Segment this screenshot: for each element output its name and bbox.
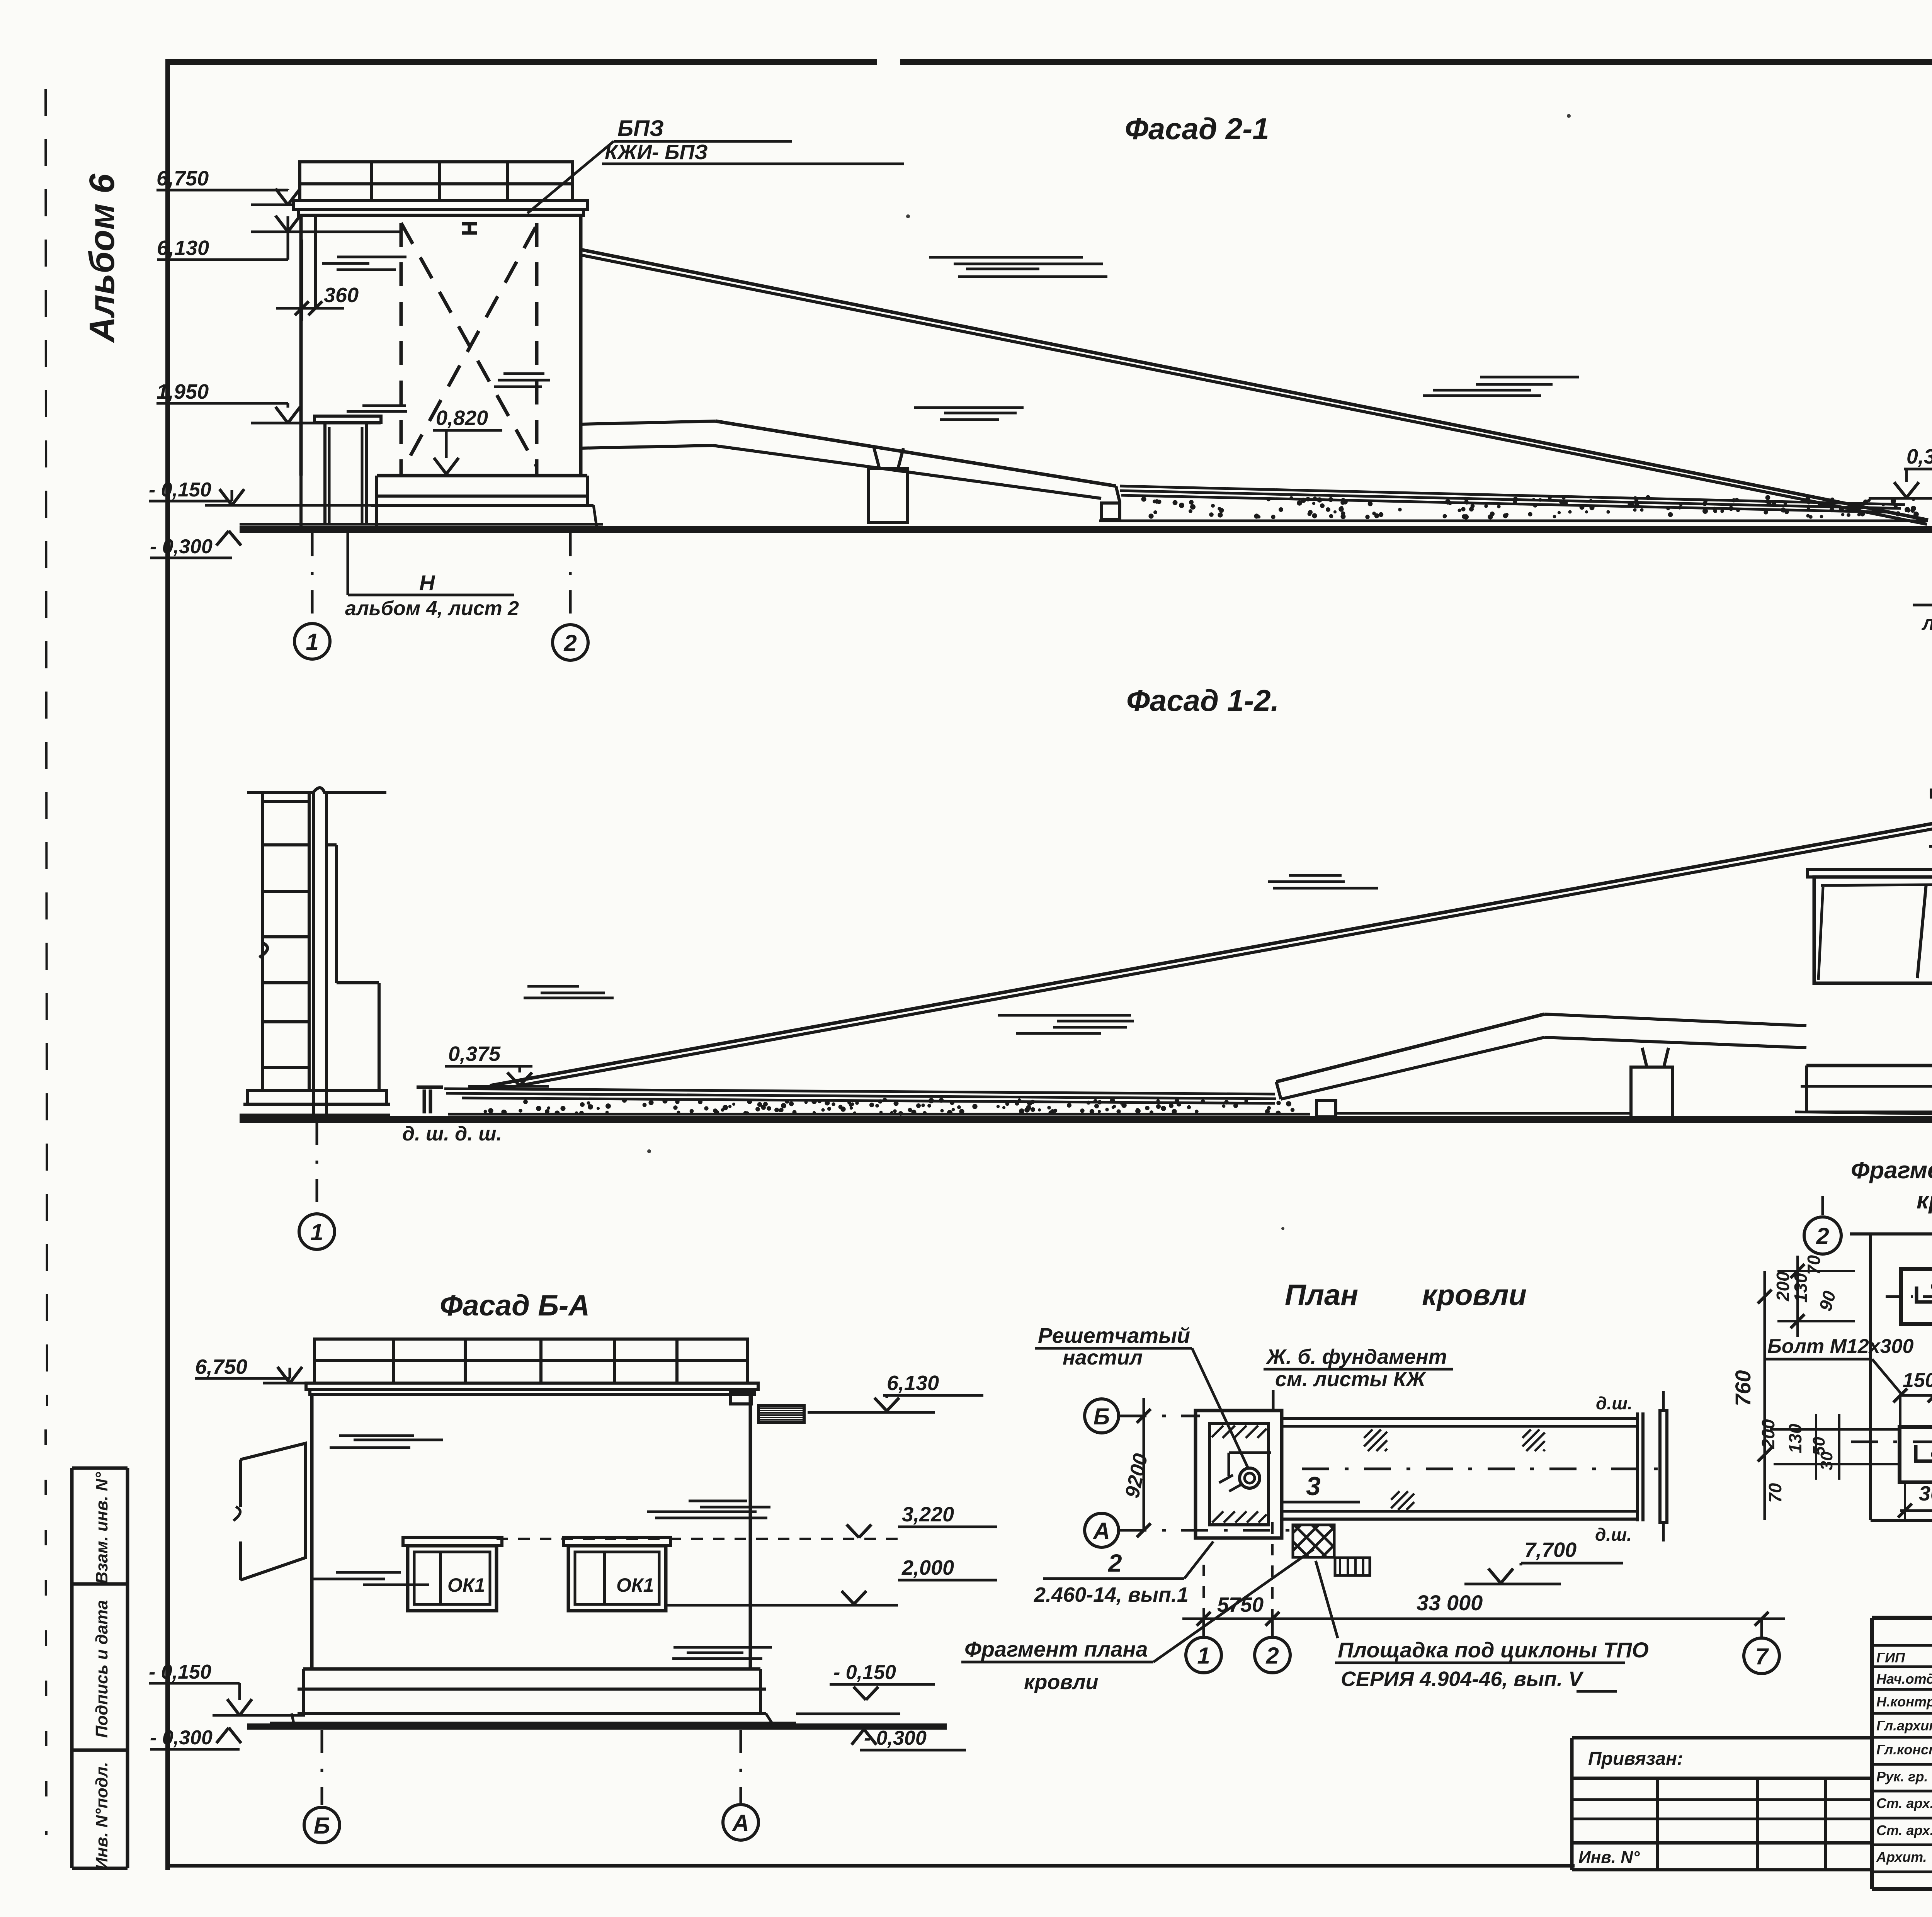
title block outer bbox=[1872, 1616, 1932, 1620]
svg-text:ГИП: ГИП bbox=[1876, 1650, 1905, 1665]
sidebar stamp boxes bbox=[70, 1468, 74, 1868]
svg-text:Н: Н bbox=[419, 571, 435, 595]
svg-text:План: План bbox=[1285, 1279, 1358, 1312]
svg-text:0,375: 0,375 bbox=[448, 1042, 501, 1066]
F21 axis circle 2 bbox=[553, 625, 588, 660]
fragment plan lower bolt plate bbox=[1900, 1427, 1932, 1482]
svg-text:150: 150 bbox=[1903, 1369, 1932, 1392]
svg-text:Альбом 6: Альбом 6 bbox=[82, 173, 122, 343]
F21 embankment band bbox=[1120, 486, 1905, 505]
svg-text:0,820: 0,820 bbox=[436, 406, 488, 430]
roof plan inner detail bbox=[1229, 1451, 1271, 1454]
svg-text:70: 70 bbox=[1765, 1483, 1785, 1503]
svg-text:200: 200 bbox=[1758, 1419, 1778, 1449]
F12 gallery roof slope bbox=[490, 822, 1932, 1086]
F12 walkway edge line bbox=[1337, 1112, 1631, 1115]
F21 retaining wall top / canopy slab bbox=[581, 421, 716, 424]
FBA axis line А bbox=[740, 1730, 742, 1803]
svg-text:Решетчатый: Решетчатый bbox=[1038, 1323, 1190, 1348]
svg-text:200: 200 bbox=[1773, 1271, 1793, 1302]
roof plan axis Б bbox=[1085, 1399, 1119, 1433]
FBA axis circle А bbox=[723, 1805, 759, 1840]
name table rows bbox=[1872, 1644, 1932, 1647]
svg-text:6,750: 6,750 bbox=[156, 167, 209, 190]
fragment plan upper bolt plate bbox=[1901, 1269, 1932, 1324]
svg-text:А: А bbox=[1092, 1518, 1110, 1544]
svg-text:ОК1: ОК1 bbox=[616, 1574, 654, 1596]
F21 axis circle 1 bbox=[294, 624, 330, 659]
F12 left base slab bbox=[247, 1091, 386, 1104]
F21 gallery roof slope bbox=[581, 250, 1928, 520]
svg-text:д. ш. д. ш.: д. ш. д. ш. bbox=[402, 1123, 502, 1145]
roof plan crosshatch pad bbox=[1293, 1525, 1334, 1557]
svg-text:7,700: 7,700 bbox=[1524, 1538, 1577, 1562]
F12 tower cornice bbox=[1931, 790, 1932, 797]
svg-text:- 0,150: - 0,150 bbox=[149, 479, 211, 501]
FBA wall bbox=[310, 1395, 314, 1669]
roof plan gallery strip bbox=[1282, 1417, 1638, 1420]
roof plan axis circle 2 bbox=[1255, 1637, 1290, 1673]
svg-text:3: 3 bbox=[1306, 1472, 1321, 1501]
F12 canopy tip support bbox=[1316, 1101, 1336, 1117]
svg-text:1: 1 bbox=[1197, 1643, 1210, 1669]
svg-text:Нач.отд.: Нач.отд. bbox=[1876, 1671, 1932, 1687]
svg-text:А: А bbox=[731, 1810, 749, 1836]
roof plan square hatch bbox=[1212, 1426, 1267, 1438]
F12 canopy slab bbox=[1276, 1014, 1544, 1082]
svg-text:300: 300 bbox=[1919, 1482, 1932, 1505]
svg-text:Рук. гр.: Рук. гр. bbox=[1876, 1769, 1928, 1784]
svg-text:Фасад 2-1: Фасад 2-1 bbox=[1125, 112, 1269, 146]
F21 tower parapet blocks bbox=[300, 162, 573, 201]
F21 facade streak marks bbox=[337, 256, 406, 258]
svg-text:6,750: 6,750 bbox=[195, 1355, 247, 1378]
svg-text:1: 1 bbox=[306, 629, 318, 655]
svg-text:кровли: кровли bbox=[1024, 1671, 1099, 1694]
svg-text:КЖИ- БПЗ: КЖИ- БПЗ bbox=[605, 141, 708, 164]
FBA window 2 bbox=[568, 1546, 666, 1611]
fragment plan axis A line bbox=[1851, 1441, 1932, 1443]
F12 tower window bbox=[1808, 869, 1932, 877]
FBA left attached panel bbox=[240, 1443, 305, 1580]
svg-text:Фрагмент плана: Фрагмент плана bbox=[1851, 1157, 1932, 1184]
roof plan pump house square bbox=[1196, 1411, 1282, 1538]
F21 axis line 2 bbox=[569, 533, 572, 625]
svg-text:Инв. N°: Инв. N° bbox=[1578, 1848, 1640, 1867]
svg-text:- 0,150: - 0,150 bbox=[149, 1661, 211, 1683]
svg-text:БПЗ: БПЗ bbox=[617, 116, 664, 141]
fragment plan top line bbox=[1850, 1229, 1932, 1234]
svg-text:2: 2 bbox=[1265, 1643, 1279, 1669]
svg-text:Б: Б bbox=[1094, 1404, 1110, 1429]
F21 БПЗ leader bbox=[527, 141, 614, 213]
svg-text:Привязан:: Привязан: bbox=[1588, 1749, 1683, 1769]
roof plan axis А bbox=[1085, 1513, 1119, 1547]
svg-text:2: 2 bbox=[1108, 1549, 1122, 1577]
F21 crane I-beam bbox=[462, 222, 477, 226]
F12 left ladder rails bbox=[312, 792, 315, 1116]
roof plan axis circle 1 bbox=[1186, 1637, 1221, 1673]
svg-text:ОК1: ОК1 bbox=[447, 1574, 485, 1596]
svg-text:настил: настил bbox=[1063, 1346, 1143, 1369]
инв № row bbox=[1572, 1868, 1872, 1871]
svg-text:СЕРИЯ 4.904-46, вып. V: СЕРИЯ 4.904-46, вып. V bbox=[1341, 1667, 1584, 1691]
F21 door bbox=[315, 416, 381, 423]
svg-text:- 0,300: - 0,300 bbox=[150, 535, 213, 558]
svg-text:Болт М12х300: Болт М12х300 bbox=[1767, 1335, 1914, 1358]
svg-text:альбом 4, лист 2: альбом 4, лист 2 bbox=[345, 597, 519, 620]
F12 facade streaks bbox=[998, 1014, 1131, 1017]
svg-text:6,130: 6,130 bbox=[157, 236, 209, 260]
svg-text:1: 1 bbox=[310, 1219, 323, 1245]
FBA streaks bbox=[339, 1434, 414, 1437]
svg-text:Архит.: Архит. bbox=[1876, 1849, 1927, 1865]
svg-text:130: 130 bbox=[1791, 1273, 1811, 1303]
F21 tower cornice bbox=[293, 201, 587, 209]
svg-text:2: 2 bbox=[1816, 1223, 1829, 1249]
svg-text:Фрагмент плана: Фрагмент плана bbox=[964, 1637, 1148, 1661]
svg-text:см. листы КЖ: см. листы КЖ bbox=[1275, 1368, 1427, 1391]
svg-text:3,220: 3,220 bbox=[902, 1503, 954, 1526]
svg-text:760: 760 bbox=[1731, 1370, 1755, 1406]
fragment plan axis circle 2 bbox=[1821, 1196, 1824, 1217]
FBA parapet bbox=[315, 1339, 748, 1383]
svg-text:360: 360 bbox=[324, 284, 359, 307]
FBA axis line Б bbox=[321, 1730, 323, 1805]
svg-text:130: 130 bbox=[1785, 1424, 1805, 1453]
svg-text:лист 16: лист 16 bbox=[1921, 612, 1932, 634]
svg-text:Ж. б. фундамент: Ж. б. фундамент bbox=[1265, 1345, 1447, 1368]
roof plan grating circle bbox=[1240, 1468, 1260, 1488]
F12 left step structure bbox=[327, 843, 337, 846]
F21 dashed cross bracing bbox=[400, 223, 403, 475]
F12 canopy pier bbox=[1642, 1048, 1647, 1067]
svg-text:- 0,300: - 0,300 bbox=[864, 1727, 927, 1749]
F12 embankment band bbox=[444, 1089, 1275, 1094]
svg-text:6,130: 6,130 bbox=[887, 1371, 939, 1395]
svg-text:2,000: 2,000 bbox=[901, 1556, 954, 1579]
svg-text:Гл.архит.: Гл.архит. bbox=[1876, 1718, 1932, 1733]
svg-text:2.460-14, вып.1: 2.460-14, вып.1 bbox=[1034, 1583, 1189, 1606]
roof plan cyclone comb bbox=[1335, 1558, 1370, 1575]
svg-text:Фасад Б-А: Фасад Б-А bbox=[440, 1289, 590, 1322]
FBA window 1 bbox=[408, 1546, 497, 1611]
FBA base band bbox=[303, 1667, 760, 1671]
roof plan axis circle 7 bbox=[1744, 1638, 1779, 1674]
F21 canopy tip support bbox=[1101, 503, 1120, 519]
roof plan dim line bbox=[1182, 1618, 1785, 1620]
FBA axis circle Б bbox=[304, 1807, 340, 1843]
svg-text:Взам. инв. N°: Взам. инв. N° bbox=[92, 1472, 111, 1584]
svg-text:д.ш.: д.ш. bbox=[1595, 1524, 1632, 1545]
svg-text:Фасад 1-2.: Фасад 1-2. bbox=[1126, 683, 1279, 717]
F21 tower wall bbox=[299, 215, 303, 476]
svg-text:Ст. арх.: Ст. арх. bbox=[1876, 1795, 1932, 1811]
F21 canopy support piers bbox=[874, 448, 879, 469]
svg-text:Инв. N°подл.: Инв. N°подл. bbox=[92, 1762, 111, 1869]
svg-text:- 0,150: - 0,150 bbox=[833, 1661, 896, 1684]
svg-text:33 000: 33 000 bbox=[1417, 1591, 1483, 1615]
F12 ground bbox=[240, 1116, 1932, 1123]
FBA right overflow pipe bbox=[730, 1392, 752, 1404]
F12 left wall top break bbox=[247, 788, 386, 793]
привязан box bbox=[1572, 1736, 1872, 1740]
F21 axis line 1 bbox=[311, 533, 314, 624]
F12 tower base band bbox=[1806, 1064, 1932, 1067]
scan noise marks bbox=[647, 60, 1932, 1594]
FBA ground bbox=[247, 1723, 947, 1730]
page frame border bbox=[166, 59, 877, 65]
svg-text:Н.контр.: Н.контр. bbox=[1876, 1694, 1932, 1710]
F21 embankment dots bbox=[1633, 496, 1637, 500]
fragment plan outline bbox=[1869, 1234, 1872, 1520]
svg-text:Гл.констр.: Гл.констр. bbox=[1876, 1742, 1932, 1757]
F12 left axis circle 1 bbox=[299, 1214, 335, 1249]
svg-text:30: 30 bbox=[1817, 1451, 1836, 1470]
F12 rail post bbox=[417, 1086, 443, 1089]
svg-text:0,375: 0,375 bbox=[1906, 445, 1932, 468]
svg-text:Площадка под циклоны ТПО: Площадка под циклоны ТПО bbox=[1338, 1638, 1649, 1662]
roof plan strip end bbox=[1636, 1412, 1639, 1521]
svg-text:Б: Б bbox=[314, 1813, 330, 1839]
FBA window 1 lintel bbox=[403, 1537, 502, 1546]
roof plan hatch marks on strip bbox=[1364, 1429, 1387, 1451]
F21 ground line bbox=[240, 526, 1932, 533]
svg-text:кровли: кровли bbox=[1917, 1187, 1932, 1214]
svg-text:7: 7 bbox=[1755, 1643, 1769, 1669]
svg-text:Ст. арх.: Ст. арх. bbox=[1876, 1822, 1932, 1838]
svg-text:д.ш.: д.ш. bbox=[1596, 1393, 1633, 1413]
svg-text:Подпись и дата: Подпись и дата bbox=[92, 1600, 111, 1738]
FBA cornice bbox=[306, 1383, 758, 1389]
F12 left axis line bbox=[316, 1122, 318, 1214]
FBA window 2 lintel bbox=[564, 1537, 670, 1546]
привязан table grid bbox=[1572, 1798, 1872, 1801]
svg-text:2: 2 bbox=[563, 630, 577, 656]
F12 left brick wall bbox=[261, 792, 264, 1091]
F21 tower base band bbox=[377, 474, 587, 478]
svg-text:- 0,300: - 0,300 bbox=[150, 1727, 213, 1749]
svg-text:кровли: кровли bbox=[1422, 1279, 1527, 1312]
svg-text:1,950: 1,950 bbox=[156, 380, 209, 403]
